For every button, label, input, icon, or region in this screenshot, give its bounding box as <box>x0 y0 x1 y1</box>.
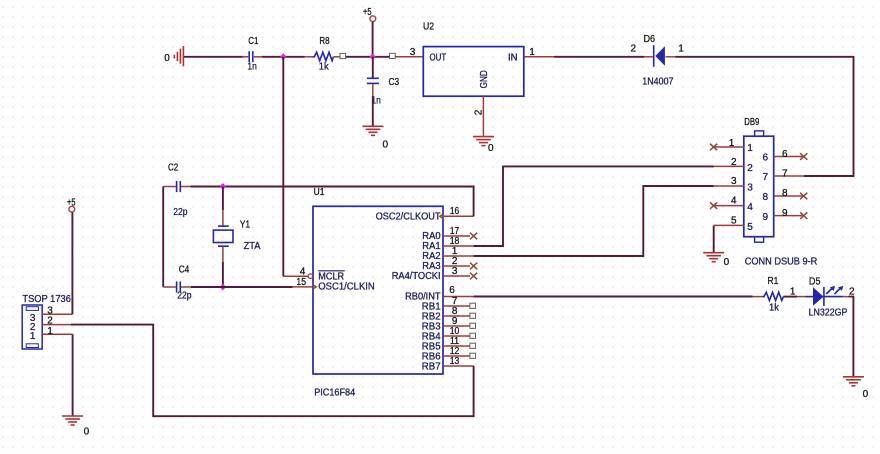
pin 2 of U2 (GND) <box>474 96 485 136</box>
svg-text:4: 4 <box>300 266 306 277</box>
node junction J3 <box>220 183 226 190</box>
svg-text:RB7: RB7 <box>422 362 441 373</box>
no-connect square S2 <box>390 53 396 58</box>
svg-text:OSC2/CLKOUT: OSC2/CLKOUT <box>376 212 441 223</box>
pin 2 of DB9 <box>714 157 744 168</box>
pin 1 of U1 (RA2) <box>443 246 474 257</box>
no-ERC cross X1 <box>710 144 717 151</box>
pin 8 of U1 (RB2) <box>443 306 470 317</box>
svg-text:1: 1 <box>747 143 753 154</box>
svg-text:CONN DSUB 9-R: CONN DSUB 9-R <box>745 257 818 268</box>
svg-text:U1: U1 <box>314 187 325 198</box>
svg-text:GND: GND <box>479 70 490 88</box>
pin 11 of U1 (RB5) <box>443 336 470 347</box>
svg-text:LN322GP: LN322GP <box>809 307 848 318</box>
svg-text:6: 6 <box>782 149 788 160</box>
svg-text:8: 8 <box>782 188 788 199</box>
pin 1 of D5 <box>790 287 806 298</box>
pin 12 of U1 (RB6) <box>443 346 470 357</box>
pin 15 of U1 (OSC1/CLKIN) <box>292 277 316 289</box>
pin 9 of DB9 <box>774 208 804 219</box>
ground G2 (net 0) <box>363 126 389 150</box>
pin 4 of DB9 <box>714 196 744 207</box>
svg-text:IN: IN <box>508 52 518 63</box>
no-ERC cross X4 <box>800 193 807 200</box>
pin 2 of D5, wire to ground <box>843 287 855 377</box>
pin 9 of U1 (RB3) <box>443 316 470 327</box>
wire: RA2 to DB9 pin 3 <box>474 186 714 256</box>
svg-text:2: 2 <box>731 157 737 168</box>
no-connect square S6 <box>470 333 476 338</box>
pin 1 of DB9 <box>714 138 744 149</box>
no-connect square S3 <box>470 303 476 308</box>
svg-text:0: 0 <box>488 143 494 154</box>
svg-text:4: 4 <box>731 196 737 207</box>
pin 8 of DB9 <box>774 188 804 199</box>
ground G6 (net 0) <box>843 377 869 400</box>
svg-text:6: 6 <box>763 152 769 163</box>
resistor R8 <box>305 36 341 73</box>
wire: R8 square to +5 junction <box>346 56 390 58</box>
pin 3 of TSOP <box>42 306 72 317</box>
pin 7 of U1 (RB1) <box>443 296 470 307</box>
svg-text:5: 5 <box>731 215 737 226</box>
svg-text:15: 15 <box>296 277 306 288</box>
no-connect square S5 <box>470 323 476 328</box>
ground G5 (net 0) <box>62 416 90 437</box>
svg-text:9: 9 <box>763 212 769 223</box>
svg-text:RA4/TOCKI: RA4/TOCKI <box>392 271 441 282</box>
pin 1 of TSOP <box>42 326 72 337</box>
pin 18 of U1 (RA1) <box>443 236 474 247</box>
wire: D6 to DB9 pin 7 <box>676 57 854 176</box>
svg-text:1: 1 <box>47 326 53 337</box>
pin 1 of D6 <box>666 44 685 57</box>
svg-text:1n: 1n <box>247 62 256 73</box>
svg-text:U2: U2 <box>423 21 434 32</box>
pin 10 of U1 (RB4) <box>443 326 470 337</box>
pin 7 of DB9 <box>774 169 804 180</box>
no-ERC cross X6 <box>470 233 477 240</box>
svg-text:2: 2 <box>747 163 753 174</box>
wire: left rail C2 to C4 <box>162 187 164 288</box>
pin 17 of U1 (RA0) <box>443 226 470 237</box>
connector DB9 <box>744 117 818 267</box>
pin 2 of D6 <box>631 44 653 57</box>
svg-text:7: 7 <box>782 169 788 180</box>
svg-text:8: 8 <box>763 192 769 203</box>
no-ERC cross X2 <box>710 202 717 209</box>
pin 16 of U1 (OSC2/CLKOUT) <box>440 206 474 219</box>
wire: junction J1 down to MCLR <box>282 57 284 276</box>
wire: DB9 pin 5 to ground <box>713 225 715 252</box>
crystal Y1 <box>213 187 260 288</box>
power +5 P1 <box>363 7 376 57</box>
svg-text:22p: 22p <box>173 207 188 218</box>
svg-text:5: 5 <box>747 222 753 233</box>
svg-text:3: 3 <box>410 47 416 58</box>
no-ERC cross X8 <box>470 273 477 280</box>
svg-text:1: 1 <box>529 47 535 58</box>
pin 1 of U2 <box>524 47 554 58</box>
wire: G1 to C1 <box>184 56 244 58</box>
svg-text:1: 1 <box>30 331 36 342</box>
capacitor C2 <box>163 162 191 218</box>
no-connect square S4 <box>470 313 476 318</box>
svg-text:2: 2 <box>47 316 53 327</box>
node junction J4 <box>220 284 226 291</box>
ground G3 (net 0) <box>473 137 494 154</box>
wire: U2 to D6 <box>554 56 644 58</box>
wire: C1 to R8 <box>262 56 305 58</box>
no-ERC cross X7 <box>470 263 477 270</box>
svg-text:4: 4 <box>747 202 753 213</box>
LED D5 <box>806 277 848 319</box>
wire: C3 to ground <box>372 84 374 126</box>
svg-text:0: 0 <box>724 257 730 268</box>
ground G4 (net 0) <box>703 253 729 268</box>
node junction J2 <box>370 53 376 60</box>
svg-text:16: 16 <box>450 206 460 217</box>
wire: RA1 to DB9 pin 2 <box>474 166 714 246</box>
svg-text:3: 3 <box>747 182 753 193</box>
diode D6 <box>642 34 674 88</box>
svg-text:1k: 1k <box>319 62 330 73</box>
pin 3 of U1 (RA4/TOCKI) <box>443 266 470 277</box>
svg-text:DB9: DB9 <box>744 117 759 128</box>
svg-text:D5: D5 <box>809 277 821 288</box>
svg-text:22p: 22p <box>177 291 192 302</box>
no-ERC cross X5 <box>800 212 807 219</box>
svg-text:ZTA: ZTA <box>244 241 261 252</box>
svg-text:1k: 1k <box>769 302 780 313</box>
pin 3 of U2 <box>396 47 424 58</box>
svg-text:0: 0 <box>84 426 90 437</box>
svg-text:1: 1 <box>729 138 735 149</box>
microcontroller U1 PIC16F84 <box>313 187 443 398</box>
pin 6 of U1 (RB0/INT) <box>443 285 474 297</box>
capacitor C1 <box>247 36 258 73</box>
svg-text:1N4007: 1N4007 <box>642 77 674 88</box>
capacitor C4 <box>163 264 192 301</box>
node junction J1 <box>280 53 286 60</box>
no-ERC cross X3 <box>800 153 807 160</box>
capacitor C3 <box>367 77 400 107</box>
capacitor C1 pins <box>242 56 262 58</box>
pin 4 of U1 (MCLR) <box>283 266 312 278</box>
svg-text:9: 9 <box>782 208 788 219</box>
pin 13 of U1 (RB7) <box>443 356 474 367</box>
svg-text:C4: C4 <box>179 264 190 275</box>
ground G1 (sideways earth, net 0) <box>164 46 183 66</box>
svg-text:R8: R8 <box>319 36 330 47</box>
svg-text:C1: C1 <box>248 36 259 47</box>
svg-text:OSC1/CLKIN: OSC1/CLKIN <box>318 282 375 293</box>
svg-text:1: 1 <box>790 287 796 298</box>
svg-text:R1: R1 <box>768 276 779 287</box>
wire: TSOP pin 1 to ground <box>72 334 74 416</box>
svg-text:0: 0 <box>383 140 389 151</box>
pin 2 of TSOP <box>42 316 71 327</box>
svg-text:7: 7 <box>763 172 769 183</box>
no-connect square S7 <box>470 343 476 348</box>
svg-text:3: 3 <box>452 266 458 277</box>
svg-text:2: 2 <box>631 44 637 55</box>
svg-text:C3: C3 <box>389 77 400 88</box>
svg-text:TSOP 1736: TSOP 1736 <box>22 294 71 305</box>
svg-text:2: 2 <box>474 109 485 115</box>
svg-text:13: 13 <box>450 356 460 367</box>
wire: RB0/INT to R1 <box>474 296 753 298</box>
svg-text:OUT: OUT <box>430 52 447 63</box>
wire: RB7 to TSOP pin 2 <box>71 325 474 417</box>
pin 2 of U1 (RA3) <box>443 256 470 267</box>
op-amp U2 (regulator box) <box>423 21 524 96</box>
svg-text:1: 1 <box>678 44 684 55</box>
no-connect square S1 <box>340 53 346 58</box>
svg-text:0: 0 <box>863 389 869 400</box>
wire: crystal rail to OSC1 <box>191 286 293 288</box>
wire: OSC2 up to crystal rail <box>191 187 474 217</box>
pin 3 of DB9 <box>714 176 744 187</box>
svg-text:Y1: Y1 <box>240 220 251 231</box>
svg-text:D6: D6 <box>644 34 656 45</box>
IR receiver TSOP 1736 <box>22 294 71 349</box>
svg-text:C2: C2 <box>168 162 179 173</box>
svg-text:0: 0 <box>164 53 170 64</box>
pin 5 of DB9 <box>714 215 744 226</box>
wire: junction down to C3 <box>372 57 374 78</box>
no-connect square S8 <box>470 353 476 358</box>
svg-text:PIC16F84: PIC16F84 <box>314 387 355 398</box>
svg-text:6: 6 <box>449 285 455 296</box>
resistor R1 <box>753 276 798 313</box>
pin 6 of DB9 <box>774 149 804 160</box>
power +5 P2 <box>67 198 76 315</box>
svg-text:3: 3 <box>731 176 737 187</box>
